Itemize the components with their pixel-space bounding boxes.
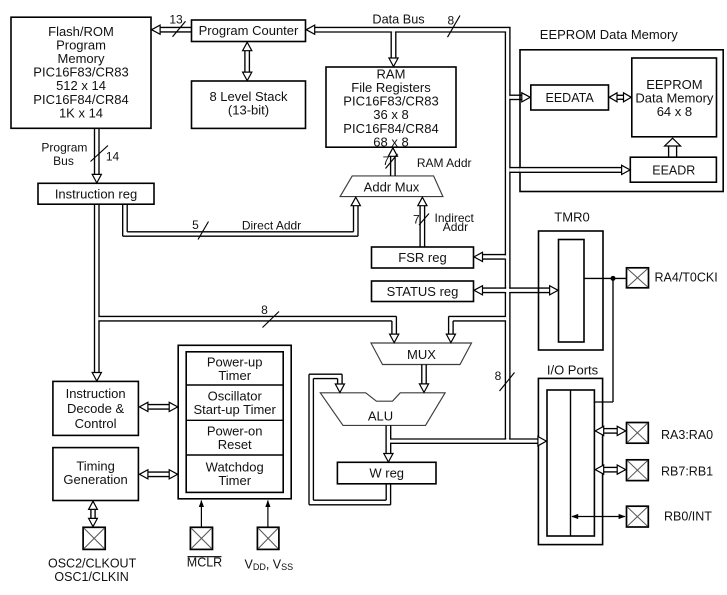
svg-text:Direct Addr: Direct Addr <box>242 218 301 232</box>
svg-text:Timer: Timer <box>218 368 251 383</box>
svg-text:68 x 8: 68 x 8 <box>373 134 408 149</box>
box U9 FSR reg <box>372 247 474 268</box>
box U5 EEDATA <box>531 85 609 110</box>
svg-text:7: 7 <box>383 154 390 168</box>
wire literal 8-bit path to MUX left input <box>99 315 396 317</box>
svg-text:Bus: Bus <box>53 154 74 168</box>
svg-text:ALU: ALU <box>368 408 393 423</box>
wire timing generation to OSC pins bidirectional <box>90 509 92 519</box>
svg-text:8: 8 <box>261 303 268 317</box>
box U11a TMR0 inner register <box>559 240 585 343</box>
pin P5 OSC2/CLKOUT OSC1/CLKIN <box>83 527 105 549</box>
wire STATUS reg to TMR0 bidirectional <box>483 287 550 289</box>
box U13a timers group inner <box>186 352 283 493</box>
wire data bus to EEADR <box>510 167 622 169</box>
svg-text:13: 13 <box>169 12 183 26</box>
pin P7 VDD VSS <box>257 527 279 549</box>
svg-text:Start-up Timer: Start-up Timer <box>194 402 277 417</box>
box U1 Flash/ROM Program Memory <box>11 17 151 128</box>
box U7 EEADR <box>630 157 716 182</box>
wire Indirect Addr FSR to addr mux <box>419 206 421 247</box>
box U13 timers group outer <box>178 345 291 499</box>
box U16 W reg <box>337 462 436 484</box>
mux M1 Addr Mux <box>340 176 443 197</box>
svg-text:EEDATA: EEDATA <box>546 91 595 105</box>
box U2 Program Counter <box>192 20 306 42</box>
svg-text:Control: Control <box>75 416 117 431</box>
wire program counter to flash 13-bit bus <box>160 26 191 28</box>
wire W reg feedback loop to ALU <box>385 484 387 500</box>
svg-text:EEPROM Data Memory: EEPROM Data Memory <box>540 27 678 42</box>
wire MUX output to ALU <box>421 365 423 385</box>
wire data bus to FSR reg <box>483 254 506 256</box>
box U8 Instruction reg <box>38 183 154 204</box>
pin P6 MCLR <box>190 527 212 549</box>
wire instruction reg to instruction decode <box>94 204 96 373</box>
wire program counter to stack bidirectional <box>244 50 246 73</box>
alu A1 ALU <box>320 393 445 426</box>
wire I/O ports to RB0/INT pin bidirectional thin <box>572 516 625 518</box>
wire Data Bus horizontal top <box>315 26 511 28</box>
box U6 EEPROM Data Memory 64x8 <box>632 58 717 137</box>
svg-text:Program: Program <box>41 140 87 154</box>
svg-text:EEADR: EEADR <box>652 163 695 177</box>
box U15 Timing Generation <box>53 448 138 501</box>
svg-text:Instruction reg: Instruction reg <box>55 186 137 201</box>
svg-text:Timer: Timer <box>218 473 251 488</box>
wire RAM Addr addr mux to RAM <box>390 156 392 176</box>
wire VDD VSS pin to timers <box>267 501 269 528</box>
wire TMR0 to RA4 pin <box>584 277 626 279</box>
wire instruction decode to timers bidirectional <box>148 404 170 406</box>
wire MCLR pin to timers <box>200 501 202 528</box>
svg-text:5: 5 <box>192 218 199 232</box>
svg-text:RA4/T0CKI: RA4/T0CKI <box>655 271 718 285</box>
svg-text:MCLR: MCLR <box>187 556 222 570</box>
wire RA4 net down to I/O ports <box>612 278 614 402</box>
box EEPROM section outline <box>520 50 723 192</box>
svg-text:TMR0: TMR0 <box>554 210 589 225</box>
svg-text:FSR reg: FSR reg <box>398 250 446 265</box>
svg-text:RAM Addr: RAM Addr <box>417 156 472 170</box>
svg-text:OSC1/CLKIN: OSC1/CLKIN <box>54 570 128 584</box>
box U3 8 Level Stack <box>192 81 306 128</box>
wire crossing gaps <box>504 289 511 292</box>
svg-text:OSC2/CLKOUT: OSC2/CLKOUT <box>48 556 137 570</box>
box U12a I/O Ports inner register <box>547 390 594 536</box>
svg-text:1K x 14: 1K x 14 <box>59 105 103 120</box>
box U11 TMR0 outer <box>539 231 604 350</box>
svg-text:W reg: W reg <box>369 466 404 481</box>
wire EEDATA to EEPROM data memory bidirectional <box>617 94 624 96</box>
svg-text:RA3:RA0: RA3:RA0 <box>661 428 713 442</box>
svg-text:Addr: Addr <box>443 220 468 234</box>
svg-text:Decode &: Decode & <box>67 401 124 416</box>
svg-text:(13-bit): (13-bit) <box>228 102 269 117</box>
pin P2 RA3:RA0 <box>627 423 649 444</box>
svg-text:Reset: Reset <box>218 437 252 452</box>
wire I/O ports to RA3:RA0 pins bidirectional <box>603 428 617 430</box>
wire timing generation to timers bidirectional <box>148 471 170 473</box>
svg-text:MUX: MUX <box>407 347 436 362</box>
wire ALU output to W reg <box>385 425 387 454</box>
wire data bus to EEDATA <box>510 94 522 96</box>
box U14 Instruction Decode and Control <box>53 381 138 435</box>
svg-text:14: 14 <box>106 150 120 164</box>
mux M2 MUX <box>371 343 472 365</box>
box U10 STATUS reg <box>372 281 474 302</box>
wire Program Bus flash to instruction reg <box>94 128 96 175</box>
box U4 RAM File Registers <box>326 67 456 147</box>
svg-text:8: 8 <box>495 369 502 383</box>
svg-text:RB0/INT: RB0/INT <box>664 510 712 524</box>
svg-text:I/O Ports: I/O Ports <box>547 362 599 377</box>
svg-text:8: 8 <box>447 13 454 27</box>
svg-text:Data Bus: Data Bus <box>372 13 424 27</box>
wire EEADR to EEPROM data memory <box>668 146 670 157</box>
svg-text:Program Counter: Program Counter <box>199 23 299 38</box>
wire Direct Addr instruction reg to addr mux <box>122 204 124 236</box>
wire I/O ports to RB7:RB1 pins bidirectional <box>603 466 617 468</box>
wire data bus branch to RAM <box>390 32 392 59</box>
svg-text:STATUS reg: STATUS reg <box>387 284 459 299</box>
pin P1 RA4/T0CKI <box>627 268 649 288</box>
pin P4 RB0/INT <box>627 506 649 527</box>
svg-text:Instruction: Instruction <box>66 386 126 401</box>
junction node on RA4 net <box>611 276 616 281</box>
box U12 I/O Ports outer <box>538 378 602 544</box>
wire ALU output branch to I/O ports <box>391 438 539 440</box>
pin P3 RB7:RB1 <box>627 460 649 481</box>
wire Data Bus vertical <box>504 32 506 439</box>
wire data bus to MUX right input <box>449 315 506 317</box>
svg-text:Generation: Generation <box>63 472 127 487</box>
svg-text:RB7:RB1: RB7:RB1 <box>661 465 713 479</box>
svg-text:64 x 8: 64 x 8 <box>657 104 692 119</box>
svg-text:Addr Mux: Addr Mux <box>364 180 420 195</box>
